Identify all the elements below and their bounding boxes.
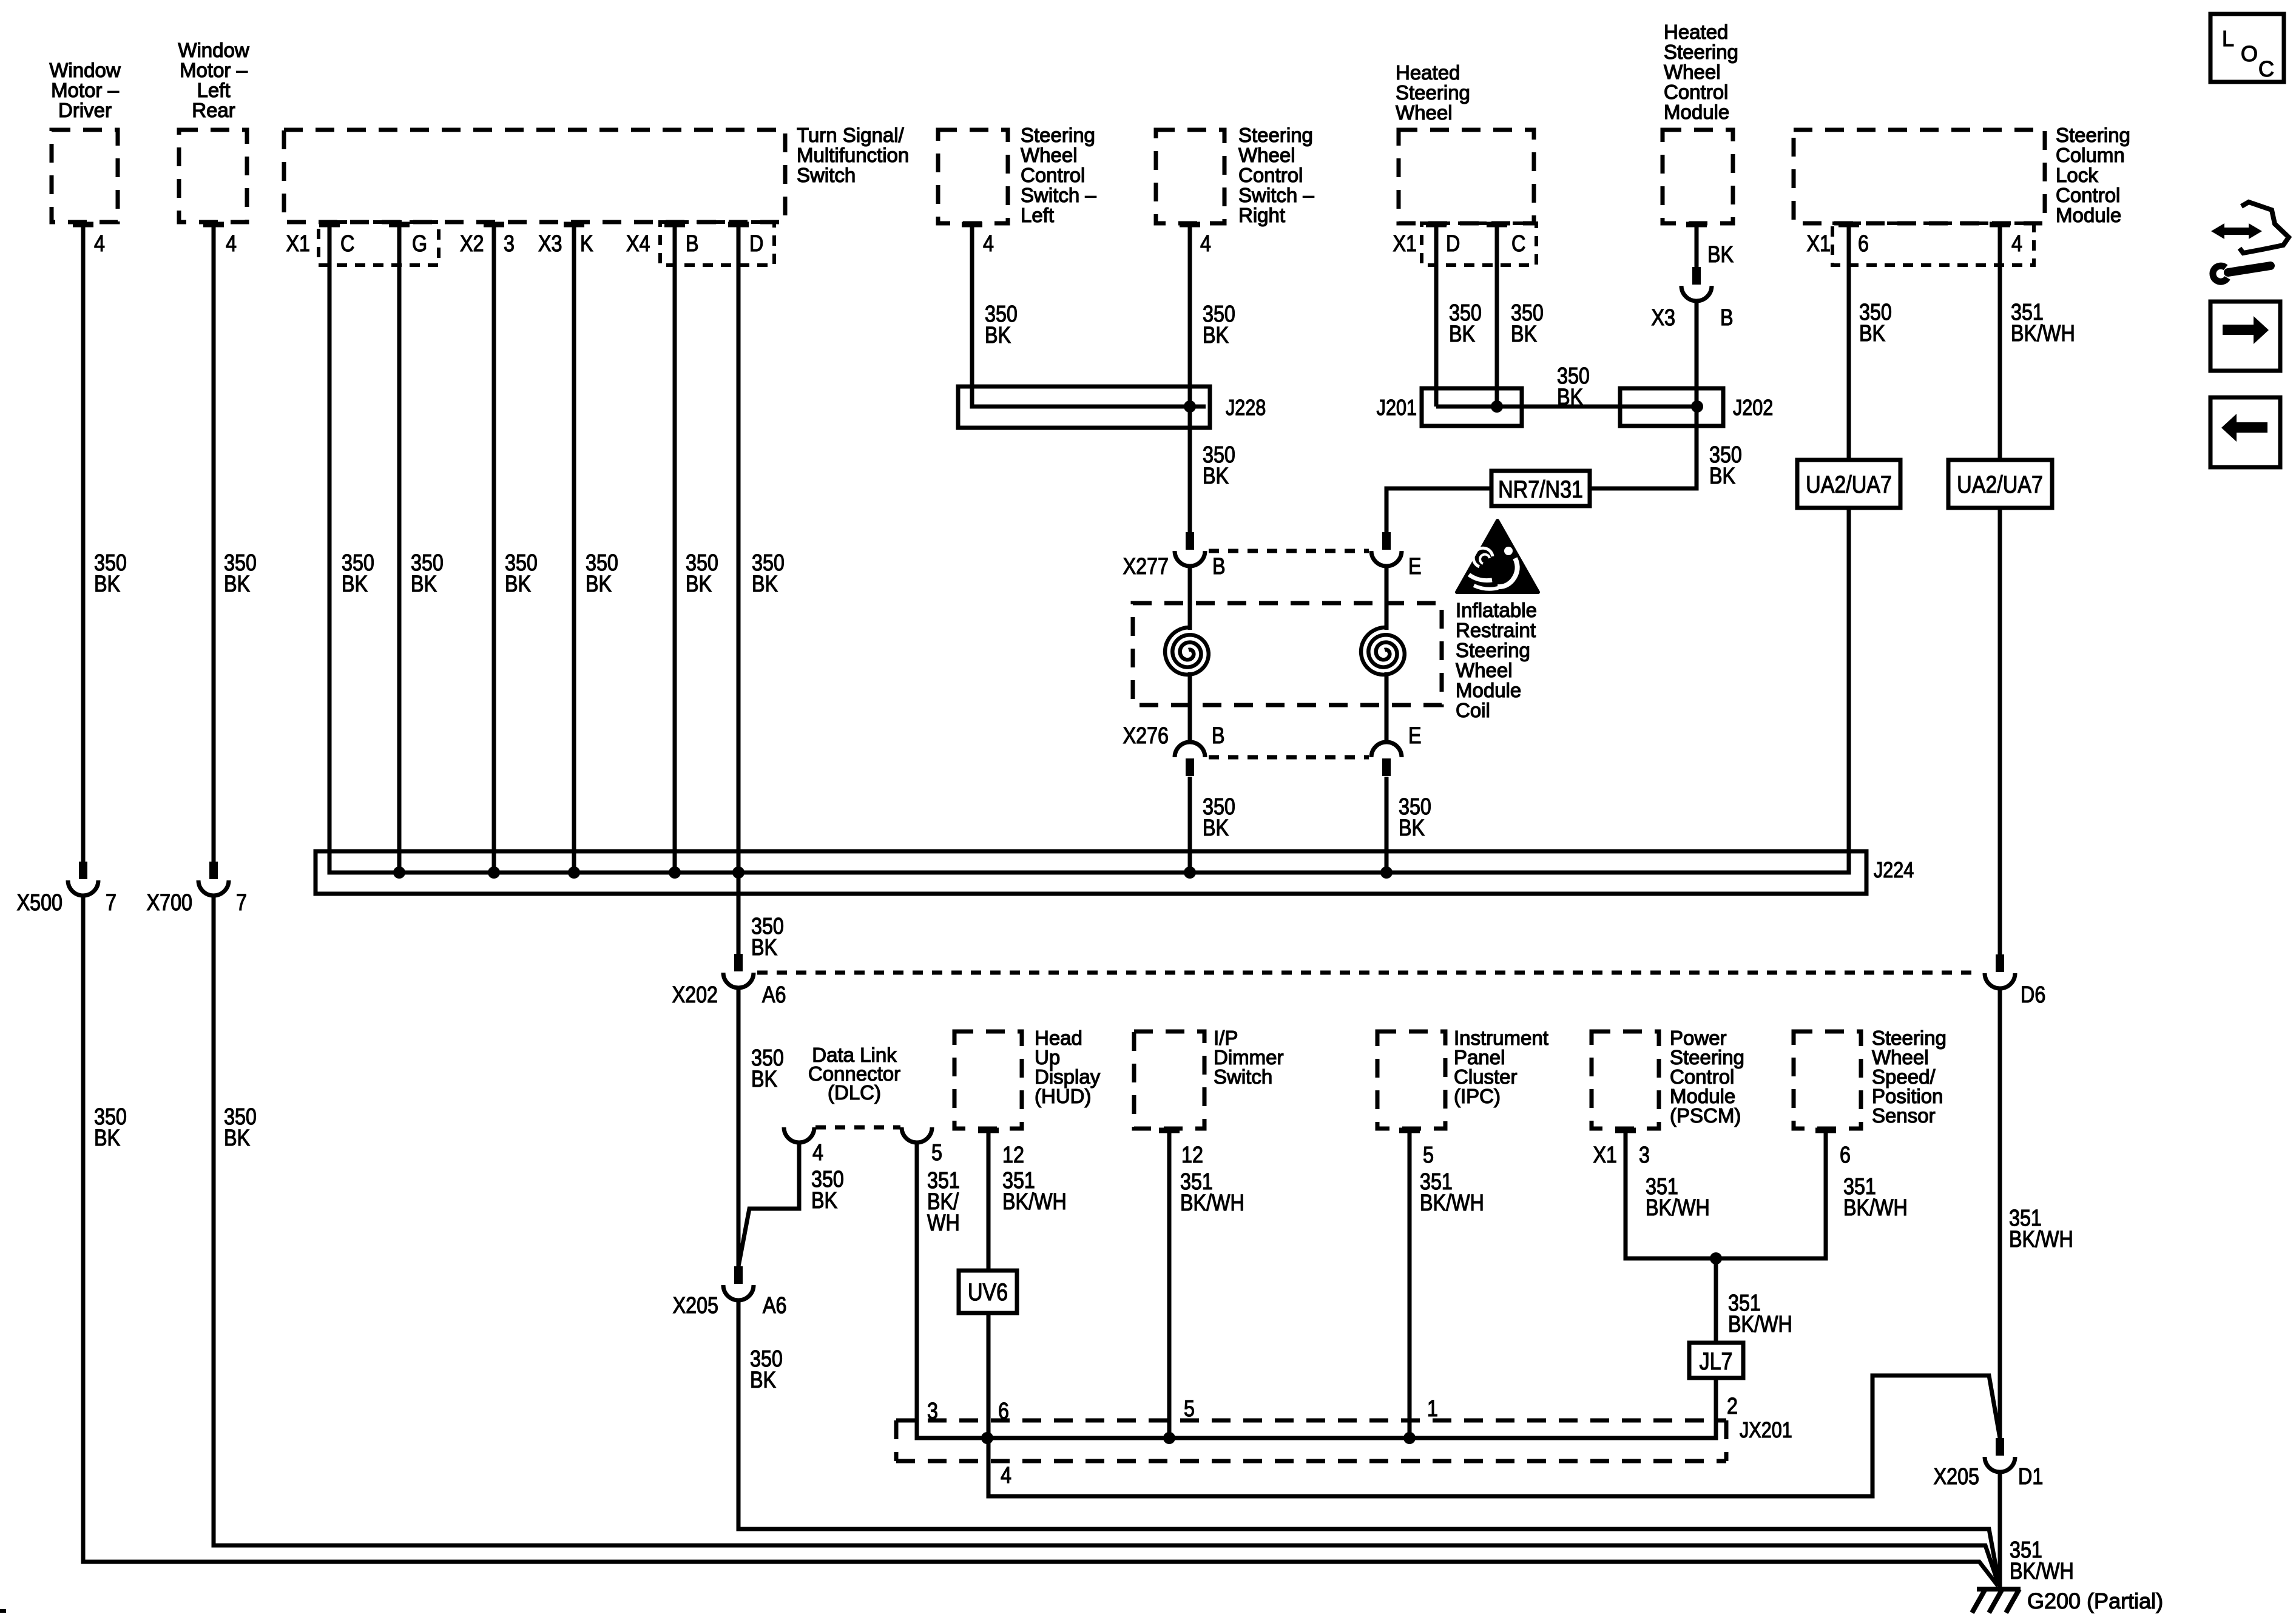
svg-text:Switch –: Switch – <box>1238 184 1314 206</box>
svg-text:X277: X277 <box>1123 554 1169 579</box>
svg-text:4: 4 <box>1200 231 1211 257</box>
svg-text:Heated: Heated <box>1396 61 1460 84</box>
svg-text:X205: X205 <box>673 1293 718 1318</box>
svg-text:C: C <box>340 231 354 257</box>
svg-text:Left: Left <box>1021 204 1054 226</box>
svg-text:Wheel: Wheel <box>1396 101 1453 124</box>
svg-text:BK: BK <box>750 1368 777 1393</box>
svg-text:6: 6 <box>1858 231 1869 257</box>
svg-text:X3: X3 <box>1652 305 1675 331</box>
svg-text:4: 4 <box>226 231 237 257</box>
svg-text:(HUD): (HUD) <box>1035 1085 1091 1107</box>
svg-text:BK: BK <box>1203 815 1229 841</box>
svg-text:BK: BK <box>1709 464 1736 489</box>
svg-text:D1: D1 <box>2018 1464 2043 1490</box>
svg-text:Steering: Steering <box>1238 124 1313 146</box>
svg-text:BK: BK <box>751 1067 778 1092</box>
svg-text:A6: A6 <box>762 982 786 1008</box>
svg-text:Switch –: Switch – <box>1021 184 1096 206</box>
svg-text:J228: J228 <box>1226 396 1266 420</box>
svg-text:Module: Module <box>1456 679 1521 701</box>
svg-text:Wheel: Wheel <box>1021 144 1078 166</box>
svg-text:7: 7 <box>106 890 116 916</box>
svg-text:Steering: Steering <box>1021 124 1095 146</box>
svg-text:Driver: Driver <box>58 99 112 121</box>
svg-text:6: 6 <box>1840 1143 1851 1168</box>
svg-text:X500: X500 <box>17 890 62 916</box>
svg-text:BK: BK <box>686 572 712 597</box>
svg-text:E: E <box>1408 723 1422 749</box>
svg-text:Control: Control <box>1664 81 1728 103</box>
svg-text:D6: D6 <box>2021 982 2045 1008</box>
svg-text:Motor –: Motor – <box>51 79 120 101</box>
svg-text:Control: Control <box>1238 164 1303 186</box>
svg-text:BK: BK <box>411 572 437 597</box>
svg-text:BK: BK <box>751 935 778 960</box>
svg-text:Column: Column <box>2056 144 2125 166</box>
svg-text:Lock: Lock <box>2056 164 2098 186</box>
svg-text:BK/WH: BK/WH <box>1728 1312 1792 1337</box>
svg-text:X700: X700 <box>147 890 192 916</box>
svg-text:UV6: UV6 <box>968 1278 1008 1305</box>
svg-text:Window: Window <box>178 39 249 61</box>
svg-text:BK/WH: BK/WH <box>1420 1190 1484 1216</box>
svg-text:BK/WH: BK/WH <box>2011 321 2075 346</box>
svg-text:BK: BK <box>752 572 778 597</box>
svg-text:6: 6 <box>998 1399 1009 1424</box>
svg-text:BK: BK <box>985 323 1011 348</box>
svg-text:2: 2 <box>1727 1394 1738 1419</box>
svg-text:BK: BK <box>1859 321 1886 346</box>
svg-text:Turn Signal/: Turn Signal/ <box>797 124 905 146</box>
svg-text:Steering: Steering <box>2056 124 2130 146</box>
svg-text:4: 4 <box>1001 1463 1011 1488</box>
svg-text:BK: BK <box>1557 385 1584 410</box>
svg-text:12: 12 <box>1002 1143 1024 1168</box>
svg-text:12: 12 <box>1181 1143 1203 1168</box>
svg-text:X1: X1 <box>1393 231 1417 257</box>
svg-text:4: 4 <box>2011 231 2022 257</box>
svg-text:B: B <box>1720 305 1734 331</box>
svg-text:C: C <box>2258 56 2274 81</box>
svg-text:Module: Module <box>1664 101 1729 123</box>
svg-text:(IPC): (IPC) <box>1454 1085 1501 1107</box>
svg-text:5: 5 <box>1184 1396 1195 1422</box>
svg-text:BK: BK <box>1203 464 1229 489</box>
svg-text:X276: X276 <box>1123 723 1169 749</box>
svg-text:J202: J202 <box>1733 396 1773 420</box>
svg-text:BK: BK <box>224 1126 251 1151</box>
svg-text:Window: Window <box>49 59 121 81</box>
svg-text:X205: X205 <box>1934 1464 1979 1490</box>
svg-text:G: G <box>412 231 427 257</box>
svg-text:J224: J224 <box>1874 859 1914 883</box>
svg-text:BK/WH: BK/WH <box>1646 1195 1710 1221</box>
svg-text:BK: BK <box>1449 322 1476 347</box>
svg-text:7: 7 <box>236 890 247 916</box>
svg-text:X2: X2 <box>460 231 484 257</box>
svg-text:BK: BK <box>1203 323 1229 348</box>
svg-text:(DLC): (DLC) <box>828 1081 881 1104</box>
svg-text:BK/WH: BK/WH <box>1180 1190 1244 1216</box>
svg-text:Restraint: Restraint <box>1456 619 1536 641</box>
svg-text:BK: BK <box>94 1126 121 1151</box>
svg-text:3: 3 <box>1639 1143 1650 1168</box>
svg-text:Inflatable: Inflatable <box>1456 599 1537 621</box>
svg-text:UA2/UA7: UA2/UA7 <box>1957 470 2043 498</box>
svg-text:5: 5 <box>1423 1143 1434 1168</box>
svg-text:X1: X1 <box>286 231 310 257</box>
svg-text:B: B <box>1212 554 1226 579</box>
svg-text:BK: BK <box>1707 242 1734 268</box>
svg-text:BK/WH: BK/WH <box>1002 1189 1067 1215</box>
svg-text:BK: BK <box>342 572 368 597</box>
svg-text:Rear: Rear <box>192 99 235 121</box>
svg-text:BK: BK <box>505 572 532 597</box>
svg-text:BK: BK <box>811 1188 838 1214</box>
svg-text:5: 5 <box>931 1140 942 1166</box>
svg-text:BK: BK <box>94 572 121 597</box>
svg-text:BK/WH: BK/WH <box>1843 1195 1908 1221</box>
svg-text:X3: X3 <box>538 231 562 257</box>
svg-text:3: 3 <box>504 231 515 257</box>
svg-text:Steering: Steering <box>1664 41 1738 63</box>
svg-text:Motor –: Motor – <box>180 59 248 81</box>
svg-text:BK/WH: BK/WH <box>2009 1227 2073 1252</box>
svg-text:Left: Left <box>197 79 230 101</box>
svg-text:Module: Module <box>2056 204 2121 226</box>
svg-text:X1: X1 <box>1807 231 1831 257</box>
svg-text:1: 1 <box>1427 1396 1438 1422</box>
svg-text:Wheel: Wheel <box>1238 144 1295 166</box>
svg-text:4: 4 <box>983 231 994 257</box>
svg-text:G200 (Partial): G200 (Partial) <box>2027 1588 2163 1613</box>
svg-text:X1: X1 <box>1593 1143 1617 1168</box>
svg-text:(PSCM): (PSCM) <box>1670 1104 1741 1127</box>
svg-text:Switch: Switch <box>797 164 856 186</box>
svg-text:Right: Right <box>1238 204 1285 226</box>
svg-text:BK/WH: BK/WH <box>2010 1559 2074 1584</box>
svg-text:NR7/N31: NR7/N31 <box>1498 475 1583 502</box>
svg-text:L: L <box>2222 26 2234 51</box>
svg-text:D: D <box>749 231 763 257</box>
svg-text:Multifunction: Multifunction <box>797 144 909 166</box>
svg-text:Steering: Steering <box>1396 81 1470 104</box>
svg-text:Wheel: Wheel <box>1664 61 1721 83</box>
svg-text:K: K <box>580 231 593 257</box>
svg-text:Wheel: Wheel <box>1456 659 1513 681</box>
svg-text:Heated: Heated <box>1664 21 1728 43</box>
svg-text:Control: Control <box>1021 164 1085 186</box>
svg-text:WH: WH <box>927 1210 960 1236</box>
svg-text:UA2/UA7: UA2/UA7 <box>1806 470 1892 498</box>
svg-text:J201: J201 <box>1377 396 1417 420</box>
svg-text:BK: BK <box>1511 322 1538 347</box>
svg-text:3: 3 <box>927 1399 938 1424</box>
svg-text:BK: BK <box>586 572 612 597</box>
svg-text:BK: BK <box>1399 815 1425 841</box>
svg-text:Coil: Coil <box>1456 699 1490 721</box>
svg-text:4: 4 <box>812 1140 823 1166</box>
svg-text:Sensor: Sensor <box>1872 1104 1936 1127</box>
svg-text:JL7: JL7 <box>1700 1347 1733 1374</box>
svg-text:E: E <box>1408 554 1422 579</box>
svg-text:Control: Control <box>2056 184 2120 206</box>
svg-text:4: 4 <box>94 231 105 257</box>
svg-text:A6: A6 <box>763 1293 786 1318</box>
svg-text:BK: BK <box>224 572 251 597</box>
svg-text:JX201: JX201 <box>1740 1419 1792 1443</box>
svg-text:C: C <box>1511 231 1525 257</box>
svg-text:X4: X4 <box>626 231 650 257</box>
svg-text:X202: X202 <box>672 982 718 1008</box>
svg-text:D: D <box>1446 231 1460 257</box>
svg-text:O: O <box>2241 41 2258 66</box>
svg-text:Steering: Steering <box>1456 639 1530 661</box>
svg-text:B: B <box>1212 723 1225 749</box>
svg-text:B: B <box>686 231 699 257</box>
svg-text:Switch: Switch <box>1214 1065 1272 1088</box>
